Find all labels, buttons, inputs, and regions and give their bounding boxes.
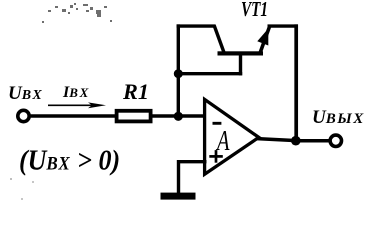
junction node output: [291, 136, 301, 146]
wire non-inverting input: [179, 162, 207, 194]
op-amp A: [205, 99, 259, 174]
op-amp inverting input marker: [213, 122, 222, 125]
resistor R1: [117, 111, 151, 122]
wire R1 to op-amp inverting input: [152, 114, 206, 118]
wire feedback left vertical: [177, 24, 180, 116]
svg-text:R1: R1: [122, 79, 149, 104]
wire top left collector to inverting node: [177, 24, 216, 27]
transistor VT1 emitter lead: [260, 26, 270, 55]
wire base lead horizontal: [178, 72, 242, 75]
wire feedback right vertical: [294, 24, 298, 140]
terminal input Uвх: [18, 110, 29, 121]
svg-text:UВХ: UВХ: [8, 83, 43, 104]
svg-text:UВЫХ: UВЫХ: [312, 107, 365, 128]
transistor VT1 emitter arrow: [257, 29, 268, 46]
svg-text:A: A: [216, 126, 231, 157]
wire input terminal to R1: [31, 114, 116, 118]
junction node inverting input: [174, 112, 183, 121]
wire base lead vertical: [239, 53, 242, 75]
wire output to terminal: [296, 139, 329, 143]
op-amp non-inverting input marker: [209, 150, 223, 163]
ground: [161, 193, 196, 200]
current arrow Iвх: [48, 102, 106, 108]
junction node base: [174, 69, 183, 78]
wire top right emitter to output: [268, 24, 299, 27]
wire op-amp output: [257, 139, 297, 141]
svg-text:(UВХ > 0): (UВХ > 0): [19, 144, 120, 175]
svg-text:VT1: VT1: [241, 0, 268, 21]
svg-text:IВХ: IВХ: [62, 84, 90, 101]
terminal output Uвых: [330, 135, 341, 146]
transistor VT1 collector lead: [214, 25, 224, 53]
transistor VT1 base bar: [218, 51, 264, 55]
